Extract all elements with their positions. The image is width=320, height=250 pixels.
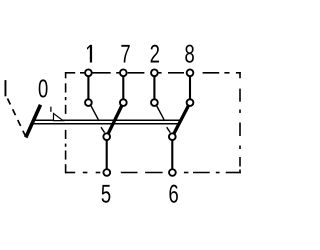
wire terminal 2 to lower contact <box>153 73 155 103</box>
switch housing bottom edge (dash-dot) <box>65 172 241 174</box>
terminal circle 7 <box>120 69 127 76</box>
closed contact blade pole 2 (8 to junction) <box>172 103 190 137</box>
closed contact blade pole 1 (7 to junction) <box>107 103 124 137</box>
junction circle pole 1 <box>103 133 110 140</box>
terminal circle 5 <box>103 169 110 176</box>
fixed contact circle 7 <box>120 99 127 106</box>
fixed contact circle 2 <box>151 99 158 106</box>
wire terminal 1 to lower contact <box>87 73 89 103</box>
open contact stroke pole 1 (below bar to junction) <box>101 127 105 132</box>
wire junction pole 2 to terminal 6 <box>171 137 173 173</box>
label terminal 5 <box>102 185 111 203</box>
actuator lever (thick, position 0) <box>26 105 41 138</box>
wire terminal 8 to lower contact <box>189 73 191 103</box>
open contact stroke pole 2 (below bar to junction) <box>167 127 171 132</box>
coupling bar top line <box>33 119 181 121</box>
open contact stroke pole 1 (from contact 1, above bar) <box>91 106 99 120</box>
switch housing left edge (dash-dot) <box>65 72 67 173</box>
terminal circle 1 <box>85 69 92 76</box>
detent marker triangle <box>54 113 64 120</box>
label terminal 8 <box>185 45 194 63</box>
detent marker tick <box>50 107 52 112</box>
terminal circle 6 <box>169 169 176 176</box>
label terminal 7 <box>121 45 129 63</box>
fixed contact circle 8 <box>187 99 194 106</box>
terminal circle 2 <box>151 69 158 76</box>
actuator alternate position (dashed, to I) <box>8 99 26 137</box>
label terminal 6 <box>169 185 178 203</box>
label terminal 2 <box>151 45 159 63</box>
terminal circle 8 <box>187 69 194 76</box>
label position I <box>5 80 7 96</box>
coupling bar bottom line <box>32 123 179 125</box>
label terminal 1 <box>87 45 92 63</box>
junction circle pole 2 <box>169 133 176 140</box>
open contact stroke pole 2 (from contact 2, above bar) <box>157 106 165 120</box>
fixed contact circle 1 <box>85 99 92 106</box>
label position 0 <box>39 79 48 97</box>
switch housing right edge (dash-dot) <box>239 72 241 173</box>
wire terminal 7 to lower contact <box>122 73 124 103</box>
switch housing top edge (dash-dot) <box>65 72 241 74</box>
wire junction pole 1 to terminal 5 <box>106 137 108 173</box>
